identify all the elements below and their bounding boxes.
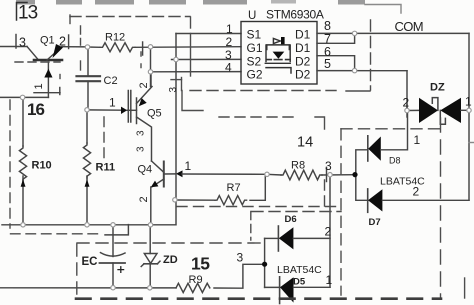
svg-text:D2: D2 bbox=[295, 68, 311, 82]
svg-text:G1: G1 bbox=[247, 41, 263, 55]
svg-text:LBAT54C: LBAT54C bbox=[277, 264, 322, 276]
svg-text:3: 3 bbox=[136, 146, 147, 152]
svg-text:2: 2 bbox=[138, 82, 150, 88]
svg-text:C2: C2 bbox=[104, 75, 118, 87]
svg-text:15: 15 bbox=[191, 254, 210, 274]
svg-text:13: 13 bbox=[18, 3, 38, 24]
svg-text:5: 5 bbox=[324, 57, 331, 71]
svg-text:1: 1 bbox=[33, 83, 45, 89]
svg-text:2: 2 bbox=[413, 185, 420, 199]
svg-text:2: 2 bbox=[403, 96, 410, 110]
svg-text:1: 1 bbox=[226, 22, 233, 36]
svg-text:14: 14 bbox=[297, 135, 313, 151]
svg-text:Q5: Q5 bbox=[147, 108, 162, 120]
svg-text:2: 2 bbox=[226, 35, 233, 49]
svg-text:1: 1 bbox=[326, 273, 333, 287]
svg-text:S1: S1 bbox=[247, 28, 262, 42]
svg-text:3: 3 bbox=[325, 159, 332, 173]
svg-text:DZ: DZ bbox=[430, 82, 445, 94]
svg-text:D2: D2 bbox=[295, 54, 311, 68]
svg-text:7: 7 bbox=[324, 32, 331, 46]
svg-text:D8: D8 bbox=[389, 156, 401, 166]
svg-text:D1: D1 bbox=[295, 28, 311, 42]
svg-text:U: U bbox=[248, 10, 256, 22]
svg-text:3: 3 bbox=[237, 251, 244, 265]
svg-text:Q1: Q1 bbox=[40, 35, 55, 47]
svg-text:D6: D6 bbox=[285, 214, 297, 225]
svg-text:ZD: ZD bbox=[163, 254, 178, 266]
svg-text:R7: R7 bbox=[227, 182, 241, 194]
svg-text:G2: G2 bbox=[247, 68, 263, 82]
svg-text:1: 1 bbox=[465, 95, 472, 109]
svg-text:R11: R11 bbox=[96, 162, 116, 174]
svg-text:R12: R12 bbox=[105, 32, 125, 44]
svg-text:D7: D7 bbox=[369, 217, 381, 228]
svg-text:2: 2 bbox=[138, 196, 150, 202]
svg-text:R10: R10 bbox=[32, 160, 52, 172]
svg-text:1: 1 bbox=[185, 159, 192, 173]
svg-text:4: 4 bbox=[225, 61, 232, 75]
svg-text:1: 1 bbox=[414, 133, 421, 147]
svg-text:2: 2 bbox=[325, 225, 332, 239]
svg-text:COM: COM bbox=[395, 19, 424, 34]
svg-text:2: 2 bbox=[59, 35, 66, 49]
svg-text:S2: S2 bbox=[247, 54, 262, 68]
svg-text:EC: EC bbox=[82, 256, 98, 268]
svg-text:D1: D1 bbox=[295, 41, 311, 55]
svg-text:8: 8 bbox=[324, 19, 331, 33]
svg-text:Q4: Q4 bbox=[138, 164, 153, 176]
svg-text:16: 16 bbox=[27, 100, 44, 119]
svg-text:R8: R8 bbox=[291, 160, 305, 172]
svg-text:3: 3 bbox=[136, 130, 147, 136]
svg-text:STM6930A: STM6930A bbox=[266, 8, 324, 22]
svg-text:D5: D5 bbox=[293, 277, 306, 288]
svg-text:R9: R9 bbox=[189, 274, 203, 286]
svg-text:3: 3 bbox=[19, 36, 26, 50]
svg-text:1: 1 bbox=[109, 96, 116, 110]
svg-text:3: 3 bbox=[168, 87, 179, 93]
